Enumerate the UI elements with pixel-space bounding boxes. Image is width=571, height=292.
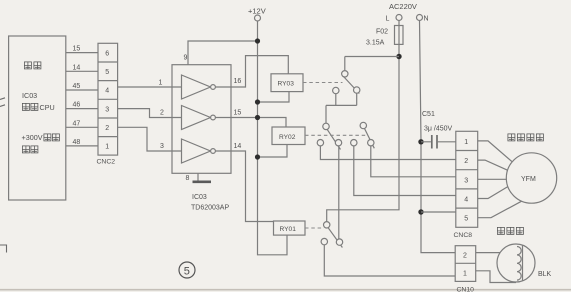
RY02 contact arm 2	[365, 129, 375, 149]
wire RY02 coil to +12V rail	[258, 145, 288, 158]
svg-text:1: 1	[463, 270, 467, 277]
wire CPU pin15 to CNC2-6	[66, 52, 98, 54]
svg-text:3: 3	[105, 106, 109, 113]
svg-text:2: 2	[463, 253, 467, 260]
valve coil	[517, 247, 521, 281]
relay coil RY02	[272, 127, 305, 145]
svg-text:+12V: +12V	[248, 7, 266, 16]
junction L/RY03 common	[396, 54, 401, 59]
wire CPU pin14 to CNC2-5	[66, 70, 98, 72]
cut-off text mark at left edge (top)	[0, 98, 5, 107]
RY01 contact common circle	[324, 222, 330, 228]
svg-text:1: 1	[159, 80, 163, 87]
svg-text:3: 3	[464, 177, 468, 184]
wire CN10-1 to valve	[476, 271, 516, 283]
svg-text:8: 8	[186, 175, 190, 182]
svg-text:14: 14	[234, 143, 242, 150]
label 通风 (CJK blocks)	[24, 62, 41, 69]
connector CNC8	[456, 131, 478, 227]
junction pin9/+12V	[255, 38, 260, 43]
capacitor C51	[421, 141, 456, 143]
ground	[193, 181, 212, 184]
RY03 contact common circle	[342, 71, 348, 77]
junction N/C51	[418, 139, 423, 144]
connector CN10	[455, 246, 476, 282]
fan motor YFM circle	[506, 153, 556, 203]
svg-text:3μ /450V: 3μ /450V	[424, 126, 452, 133]
fuse F02 body	[395, 26, 404, 45]
RY01 stationary contact left	[321, 238, 327, 244]
svg-text:CN10: CN10	[457, 287, 475, 292]
label 室外风机	[508, 134, 544, 141]
svg-text:14: 14	[73, 64, 81, 71]
connector CNC2	[98, 43, 118, 155]
svg-text:CNC2: CNC2	[97, 159, 116, 166]
svg-text:5: 5	[464, 216, 468, 223]
wire CN10-2 to valve	[476, 252, 501, 254]
wire CNC2-2 to driver input pin3	[118, 127, 172, 151]
svg-text:4: 4	[105, 88, 109, 95]
valve BLK circle	[497, 244, 535, 282]
cut-off text mark at left edge (bottom)	[0, 245, 7, 253]
wire CPU pin47 to CNC2-2	[66, 126, 98, 128]
RY02 bottom terminal F	[335, 140, 341, 146]
junction RY02/+12V	[255, 154, 260, 159]
label 室外CPU	[22, 103, 38, 110]
+12V rail wire	[258, 21, 288, 255]
wire CNC8-3 to fan	[478, 178, 507, 180]
svg-text:L: L	[386, 16, 390, 23]
svg-text:9: 9	[184, 55, 188, 62]
svg-text:TD62003AP: TD62003AP	[191, 205, 229, 212]
svg-text:IC03: IC03	[22, 91, 37, 100]
svg-text:16: 16	[234, 78, 242, 85]
wire pin16 to relay RY03 coil	[231, 56, 288, 87]
wire pin14 to relay RY01 coil	[231, 151, 274, 222]
fuse F02 wire	[398, 21, 400, 57]
wire CNC2-3 to driver input pin2	[118, 109, 172, 118]
svg-text:AC220V: AC220V	[389, 2, 417, 11]
RY03 stationary contact right	[354, 87, 360, 93]
svg-text:+300V: +300V	[22, 133, 43, 142]
svg-text:1: 1	[464, 139, 468, 146]
svg-text:1: 1	[105, 144, 109, 151]
wire F down to RY01 contact	[338, 146, 340, 239]
RY02 bottom terminal E	[317, 140, 323, 146]
RY03 stationary contact left	[333, 87, 339, 93]
wire CNC8-1 to fan	[478, 141, 513, 162]
inverter U1b	[172, 106, 231, 130]
wire CNC8-5 to fan	[478, 201, 522, 218]
wire N to CNC8 pin5	[421, 211, 456, 213]
svg-text:46: 46	[73, 102, 81, 109]
RY02 contact arm 1	[327, 129, 340, 149]
svg-text:3.15A: 3.15A	[366, 40, 385, 47]
wire CPU pin48 to CNC2-1	[66, 145, 98, 147]
junction pin15 crossing	[255, 115, 260, 120]
figure number 5	[179, 262, 195, 278]
wire pin15 to relay RY02 coil	[231, 118, 286, 128]
RY01 contact arm	[328, 228, 342, 248]
svg-text:45: 45	[73, 83, 81, 90]
label 四通阀	[497, 227, 523, 234]
svg-text:RY03: RY03	[278, 81, 295, 88]
svg-text:YFM: YFM	[521, 176, 536, 183]
wire E to CNC8 pin2	[320, 146, 455, 160]
wire CNC8-2 to fan	[478, 160, 508, 170]
RY02 contact top-right D	[360, 122, 366, 128]
wire H to CNC8 pin3	[371, 146, 456, 177]
svg-text:2: 2	[105, 125, 109, 132]
wire CNC8-4 to fan	[478, 187, 508, 199]
svg-text:47: 47	[73, 120, 81, 127]
svg-text:CPU: CPU	[40, 103, 55, 112]
RY03 contact arm	[343, 76, 359, 93]
wire RY03 coil to +12V rail	[258, 92, 290, 102]
label 控制	[22, 146, 38, 153]
RY02 dashed link	[305, 134, 368, 136]
wire CPU pin46 to CNC2-3	[66, 108, 98, 110]
RY01 dashed link	[305, 227, 324, 229]
inverter U1a	[172, 75, 231, 99]
svg-text:5: 5	[105, 69, 109, 76]
N line	[420, 21, 456, 253]
CPU block IC03 (outdoor CPU box)	[9, 36, 66, 200]
RY02 bottom terminal G	[351, 140, 357, 146]
wire CNC2-4 to driver input pin1	[118, 86, 172, 88]
junction RY03/+12V	[255, 99, 260, 104]
svg-text:15: 15	[73, 46, 81, 53]
svg-text:48: 48	[73, 139, 81, 146]
svg-text:RY02: RY02	[279, 134, 296, 141]
valve internal line	[522, 245, 524, 281]
svg-text:C51: C51	[422, 111, 435, 118]
svg-text:CNC8: CNC8	[454, 232, 473, 239]
wire RY03 contacts to RY02 common C	[326, 93, 357, 123]
L line down and to RY01 common	[327, 57, 399, 222]
pin 9 wire to +12V rail	[188, 41, 258, 65]
junction N/CNC8-5	[418, 209, 423, 214]
bottom scan edge line	[0, 289, 571, 291]
svg-text:3: 3	[160, 143, 164, 150]
svg-text:N: N	[424, 16, 429, 23]
relay coil RY01	[274, 221, 306, 235]
driver IC03 box	[172, 65, 231, 174]
relay coil RY03	[271, 74, 303, 92]
svg-text:6: 6	[105, 50, 109, 57]
wire CPU pin45 to CNC2-4	[66, 89, 98, 91]
wire L to RY03 contact common	[345, 57, 399, 71]
RY01 stationary contact right	[336, 239, 342, 245]
wire G to CNC8 pin4	[354, 146, 456, 196]
RY02 contact top-left C	[323, 123, 329, 129]
pin 8 wire	[197, 173, 199, 181]
inverter U1c	[172, 139, 231, 163]
svg-text:15: 15	[234, 110, 242, 117]
svg-text:4: 4	[464, 197, 468, 204]
svg-text:F02: F02	[376, 29, 388, 36]
svg-text:2: 2	[160, 110, 164, 117]
svg-text:RY01: RY01	[280, 226, 297, 233]
RY03 dashed link	[303, 82, 343, 84]
+12V terminal	[255, 15, 261, 21]
wire RY01 contact to CN10 pin1	[324, 245, 455, 276]
RY02 bottom terminal H	[368, 140, 374, 146]
svg-text:IC03: IC03	[192, 194, 207, 201]
svg-text:2: 2	[464, 158, 468, 165]
svg-text:BLK: BLK	[538, 271, 552, 278]
svg-text:5: 5	[184, 265, 190, 277]
